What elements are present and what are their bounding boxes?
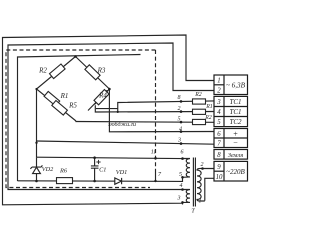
svg-text:R2: R2 <box>204 115 212 121</box>
svg-text:5: 5 <box>217 119 221 126</box>
svg-text:11: 11 <box>151 150 157 156</box>
svg-text:Т: Т <box>191 209 195 215</box>
svg-text:4: 4 <box>217 109 221 116</box>
svg-text:2: 2 <box>217 88 221 95</box>
svg-text:R4: R4 <box>98 92 107 100</box>
svg-text:R2: R2 <box>38 67 47 75</box>
svg-text:R6: R6 <box>59 168 68 175</box>
svg-text:6: 6 <box>217 131 221 138</box>
svg-text:10: 10 <box>216 174 223 181</box>
svg-text:5: 5 <box>178 117 181 123</box>
svg-text:R5: R5 <box>68 102 77 110</box>
svg-text:3: 3 <box>177 138 181 144</box>
svg-text:2: 2 <box>178 106 181 112</box>
svg-text:R1: R1 <box>60 92 69 100</box>
svg-text:4: 4 <box>179 126 182 133</box>
svg-text:R2: R2 <box>194 92 202 98</box>
svg-text:ТС1: ТС1 <box>229 98 241 106</box>
svg-text:2: 2 <box>201 162 204 168</box>
svg-text:3: 3 <box>216 99 221 106</box>
svg-text:VD2: VD2 <box>42 166 54 173</box>
svg-text:VD1: VD1 <box>116 169 128 176</box>
svg-text:9: 9 <box>217 164 221 171</box>
svg-text:R3: R3 <box>97 67 106 75</box>
svg-text:5: 5 <box>179 172 182 178</box>
svg-text:7: 7 <box>217 141 221 148</box>
svg-text:1: 1 <box>217 78 220 85</box>
svg-text:~220В: ~220В <box>226 168 245 176</box>
svg-text:ТС2: ТС2 <box>229 118 242 126</box>
svg-text:R1: R1 <box>205 104 213 110</box>
svg-text:~ 6,3В: ~ 6,3В <box>226 82 246 90</box>
svg-text:8: 8 <box>217 152 221 159</box>
svg-text:ТС1: ТС1 <box>229 108 241 116</box>
svg-text:C1: C1 <box>99 167 106 174</box>
svg-text:−: − <box>233 138 238 147</box>
svg-text:8: 8 <box>178 95 181 101</box>
svg-text:Земля: Земля <box>228 152 243 159</box>
svg-text:7: 7 <box>158 172 162 178</box>
svg-text:зюбджи.ги: зюбджи.ги <box>107 121 136 128</box>
svg-text:6: 6 <box>181 150 184 156</box>
svg-text:1: 1 <box>199 199 202 205</box>
svg-text:3: 3 <box>177 196 181 202</box>
svg-text:4: 4 <box>180 182 183 189</box>
